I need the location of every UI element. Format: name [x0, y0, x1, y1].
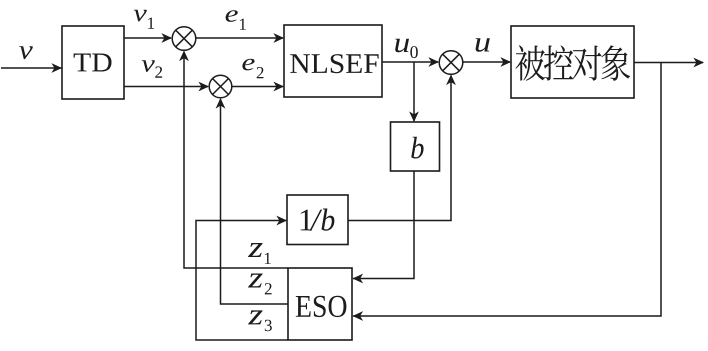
wire z2 ESO to S2 — [221, 99, 289, 304]
label v1 — [134, 10, 147, 22]
wire plant feedback to ESO — [353, 63, 661, 317]
block b — [391, 122, 440, 171]
wire u S3 to plant — [463, 61, 510, 63]
label u — [476, 38, 490, 52]
wire b output to ESO — [353, 171, 414, 279]
label z3 — [248, 310, 263, 324]
wire v input — [1, 67, 62, 69]
block plant 被控对象 — [511, 26, 634, 98]
label v — [19, 46, 33, 59]
block 1/b — [287, 195, 348, 245]
wire v2 — [124, 86, 208, 88]
label z1 — [248, 243, 263, 257]
wire z3 ESO to 1/b — [196, 221, 288, 341]
wire plant output — [634, 62, 703, 64]
wire v1 — [124, 37, 171, 39]
block ESO — [288, 268, 352, 340]
block NLSEF — [284, 25, 382, 97]
wire u0 NLSEF to S3 — [382, 61, 438, 63]
summing junction S2 — [209, 75, 232, 98]
block TD — [62, 26, 124, 99]
label z2 — [248, 274, 263, 288]
wire e1 — [196, 37, 283, 39]
wire u0 branch down to b — [413, 62, 415, 121]
wire z1 ESO to S1 — [184, 52, 288, 269]
label e1 — [226, 10, 238, 22]
label v2 — [142, 60, 155, 72]
summing junction S3 — [439, 51, 463, 75]
summing junction S1 — [172, 27, 196, 51]
wire e2 — [232, 86, 283, 88]
label e2 — [242, 59, 254, 71]
label u0 — [395, 39, 409, 53]
wire 1/b output to S3 — [348, 76, 451, 221]
